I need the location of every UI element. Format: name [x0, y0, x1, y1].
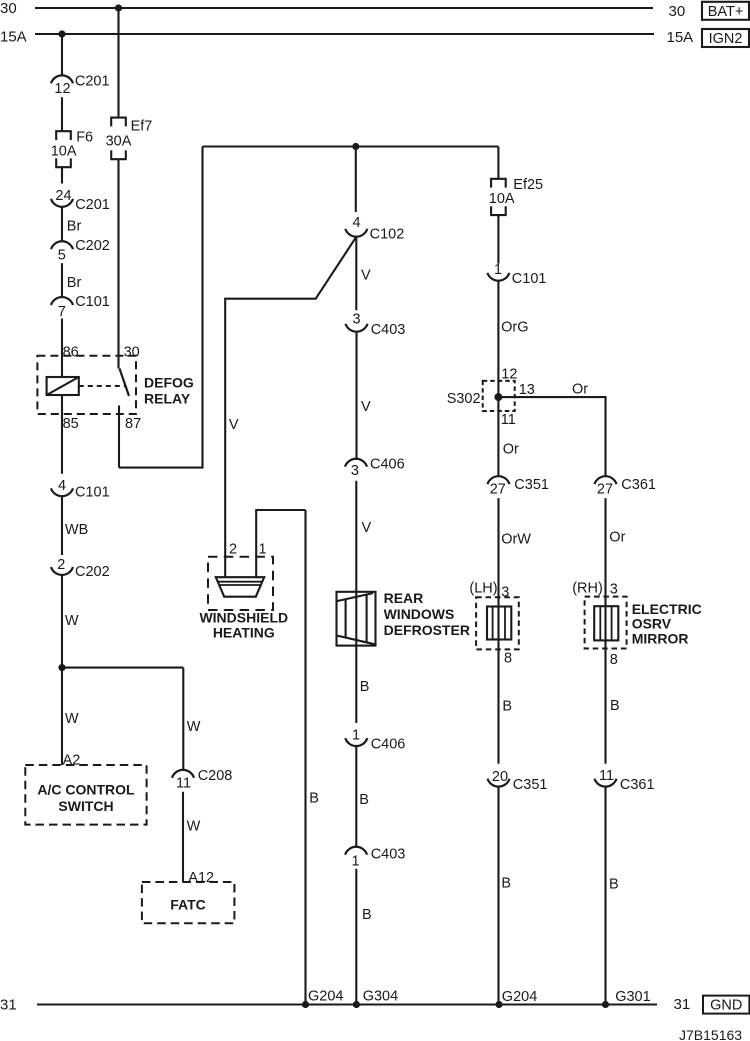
- component REAR WINDOWS DEFROSTER element: [337, 592, 376, 646]
- S302 pin label 13: [519, 382, 535, 398]
- svg-text:C361: C361: [620, 777, 655, 793]
- wire junction to C208 (horizontal): [62, 667, 183, 669]
- svg-text:G304: G304: [363, 988, 398, 1004]
- wire windshield pin1 ground line (B): [306, 510, 319, 1005]
- wire C102-4 slant to windshield pin2: [225, 237, 356, 577]
- svg-text:C201: C201: [75, 73, 110, 89]
- connector C101 pin 1: [487, 262, 546, 287]
- svg-text:C101: C101: [512, 271, 547, 287]
- wire C202-2 to A/C switch (W): [62, 575, 80, 769]
- wire C208-11 to FATC (W): [183, 792, 214, 886]
- svg-text:Or: Or: [503, 442, 519, 458]
- svg-text:W: W: [187, 719, 201, 735]
- component WINDSHIELD HEATING dashed box: [208, 557, 273, 610]
- svg-text:4: 4: [353, 215, 361, 231]
- node: junction of F6 feed on bus 15A: [58, 30, 65, 37]
- node: junction of Ef7 feed on bus 30: [115, 4, 122, 11]
- connector C202 pin 2: [51, 557, 110, 580]
- svg-text:12: 12: [54, 81, 70, 97]
- label 15A right: [667, 29, 694, 46]
- svg-text:V: V: [361, 399, 371, 415]
- svg-text:W: W: [65, 613, 79, 629]
- wire C101-7 to relay coil pin86: [61, 319, 63, 378]
- windshield heating element: [216, 577, 264, 597]
- svg-text:8: 8: [610, 652, 618, 668]
- svg-text:3: 3: [353, 312, 361, 328]
- svg-text:C202: C202: [75, 564, 110, 580]
- ground label G301: [615, 989, 650, 1005]
- svg-text:HEATING: HEATING: [213, 625, 275, 641]
- svg-text:2: 2: [57, 557, 65, 573]
- connector C101 pin 4: [51, 478, 110, 501]
- svg-text:B: B: [362, 907, 372, 923]
- svg-text:B: B: [502, 699, 512, 715]
- svg-text:1: 1: [352, 728, 360, 744]
- connector C361 pin 27: [595, 476, 656, 497]
- svg-text:10A: 10A: [51, 144, 77, 160]
- svg-text:85: 85: [63, 416, 79, 432]
- connector C406 pin 1: [345, 728, 405, 753]
- svg-text:GND: GND: [710, 998, 742, 1014]
- label REAR WINDOWS DEFROSTER: [384, 590, 470, 638]
- wire S302 to C361 column (Or): [498, 381, 605, 476]
- svg-text:C101: C101: [75, 485, 110, 501]
- fuse F6 10A: [51, 129, 93, 167]
- svg-text:87: 87: [125, 416, 141, 432]
- svg-text:(RH): (RH): [572, 581, 603, 597]
- connector C351 pin 20: [488, 769, 548, 793]
- svg-text:5: 5: [58, 248, 66, 264]
- windshield pin label 1: [258, 542, 266, 558]
- svg-text:B: B: [309, 791, 319, 807]
- svg-text:W: W: [187, 818, 201, 834]
- svg-text:11: 11: [176, 776, 191, 792]
- terminal box IGN2: [702, 29, 749, 47]
- svg-text:86: 86: [63, 344, 79, 360]
- svg-text:30A: 30A: [106, 134, 132, 150]
- node: ground G301: [602, 1001, 609, 1008]
- wire C101-4 to C202-2 (WB): [62, 496, 88, 555]
- svg-text:27: 27: [597, 481, 613, 497]
- fuse Ef7 30A: [106, 118, 153, 160]
- wire 15A bus to C201 pin12: [61, 34, 63, 76]
- label 30 left: [0, 0, 17, 17]
- svg-text:SWITCH: SWITCH: [58, 798, 113, 814]
- svg-text:G204: G204: [308, 988, 343, 1004]
- terminal box BAT+: [702, 2, 749, 20]
- svg-text:Or: Or: [572, 381, 588, 397]
- wire relay pin87 down: [118, 414, 120, 468]
- label 31 left: [0, 997, 17, 1014]
- svg-text:DEFROSTER: DEFROSTER: [384, 622, 470, 638]
- connector C102 pin 4: [345, 215, 404, 243]
- svg-text:B: B: [501, 875, 511, 891]
- windshield pin label 2: [229, 542, 237, 558]
- svg-text:FATC: FATC: [170, 896, 206, 912]
- svg-text:A2: A2: [63, 753, 81, 769]
- svg-text:C351: C351: [513, 777, 548, 793]
- wire relay pin85 to C101-4: [61, 395, 63, 474]
- svg-text:B: B: [359, 792, 369, 808]
- svg-text:WINDOWS: WINDOWS: [384, 606, 455, 622]
- wire C201-24 to C202-5 (Br): [62, 207, 81, 241]
- relay switch blade: [120, 369, 130, 397]
- node: ground G204 (B line): [302, 1001, 309, 1008]
- bus bar 15A (IGN2) wire: [35, 33, 654, 35]
- RH mirror defogger element: [594, 606, 618, 640]
- svg-text:(LH): (LH): [469, 581, 497, 597]
- svg-text:RELAY: RELAY: [144, 391, 191, 407]
- svg-text:ELECTRIC: ELECTRIC: [632, 601, 702, 617]
- connector C403 pin 3: [346, 312, 406, 338]
- wire C403-3 to C406-3 (V): [357, 332, 372, 459]
- svg-text:1: 1: [258, 542, 266, 558]
- wire fuse F6 to C201 pin24: [61, 168, 63, 184]
- svg-text:V: V: [229, 417, 239, 433]
- node: ground G204 right: [495, 1001, 502, 1008]
- svg-text:WB: WB: [65, 522, 88, 538]
- svg-text:Br: Br: [67, 275, 82, 291]
- svg-text:31: 31: [674, 996, 691, 1013]
- svg-text:G301: G301: [615, 989, 650, 1005]
- component LH mirror defogger dashed box: [476, 597, 519, 649]
- node: splice point S302: [494, 393, 502, 401]
- svg-text:B: B: [360, 679, 370, 695]
- component FATC dashed box: [142, 882, 235, 923]
- connector C406 pin 3: [345, 456, 405, 478]
- svg-text:10A: 10A: [489, 191, 515, 207]
- svg-text:V: V: [361, 267, 371, 283]
- svg-text:C351: C351: [514, 477, 549, 493]
- svg-text:A/C CONTROL: A/C CONTROL: [37, 782, 135, 798]
- wire pin87 feed: up to sub-rail: [119, 147, 203, 468]
- svg-text:C361: C361: [621, 477, 656, 493]
- connector C208 pin 11: [172, 768, 232, 791]
- svg-text:13: 13: [519, 382, 535, 398]
- svg-text:Or: Or: [609, 529, 625, 545]
- svg-text:Ef25: Ef25: [513, 177, 543, 193]
- svg-text:G204: G204: [502, 989, 537, 1005]
- relay coil: [47, 377, 79, 395]
- node: junction C102 branch on sub-rail: [352, 143, 359, 150]
- svg-text:1: 1: [494, 262, 502, 278]
- svg-text:WINDSHIELD: WINDSHIELD: [199, 610, 288, 626]
- relay pin label 85: [63, 416, 79, 432]
- svg-text:DEFOG: DEFOG: [144, 374, 194, 390]
- svg-text:15A: 15A: [0, 29, 27, 46]
- wire C102-4 down (V): [356, 237, 371, 310]
- svg-text:BAT+: BAT+: [708, 4, 744, 20]
- ground bus 31 wire: [37, 1003, 657, 1005]
- label S302: [447, 391, 481, 407]
- S302 pin label 11: [501, 412, 516, 428]
- ground label G204 left: [308, 988, 343, 1004]
- wire sub-rail to C102-4: [355, 147, 357, 213]
- wire C202-5 to C101-7 (Br): [62, 263, 81, 297]
- svg-text:Ef7: Ef7: [131, 119, 153, 135]
- wire C351-20 to ground (B): [499, 787, 512, 1005]
- svg-text:C406: C406: [370, 456, 405, 472]
- wire C101-1 to S302 (OrG): [498, 281, 528, 397]
- component RH mirror defogger dashed box: [585, 597, 627, 649]
- svg-text:REAR: REAR: [384, 590, 424, 606]
- wire C406-1 to C403-1 (B): [356, 746, 369, 847]
- svg-text:A12: A12: [188, 870, 214, 886]
- wire C201-12 to fuse F6: [61, 97, 63, 131]
- connector C361 pin 11: [595, 768, 655, 793]
- svg-text:1: 1: [351, 854, 359, 870]
- label 15A left: [0, 29, 27, 46]
- svg-text:12: 12: [501, 367, 517, 383]
- relay pin label 86: [63, 344, 79, 360]
- svg-text:C101: C101: [75, 294, 110, 310]
- svg-text:3: 3: [351, 463, 359, 479]
- svg-text:8: 8: [504, 651, 512, 667]
- svg-text:30: 30: [669, 3, 686, 20]
- svg-text:S302: S302: [447, 391, 481, 407]
- svg-text:OrW: OrW: [501, 531, 531, 547]
- svg-text:Br: Br: [67, 219, 82, 235]
- svg-text:B: B: [609, 876, 619, 892]
- svg-text:11: 11: [599, 768, 614, 784]
- relay pin label 30: [124, 344, 140, 360]
- ground label G304: [363, 988, 398, 1004]
- ground label G204 right: [502, 989, 537, 1005]
- svg-text:4: 4: [58, 478, 66, 494]
- splice S302 dashed box: [483, 381, 515, 411]
- connector C202 pin 5: [51, 238, 110, 263]
- svg-text:V: V: [362, 520, 372, 536]
- relay pin label 87: [125, 416, 141, 432]
- svg-text:30: 30: [124, 344, 140, 360]
- svg-text:C208: C208: [198, 768, 233, 784]
- svg-text:C406: C406: [371, 736, 406, 752]
- node: ground G304: [353, 1001, 360, 1008]
- svg-text:J7B15163: J7B15163: [679, 1027, 742, 1041]
- svg-text:IGN2: IGN2: [709, 31, 743, 47]
- wire bus30 to fuse Ef7: [117, 8, 119, 118]
- svg-text:W: W: [65, 711, 79, 727]
- wire C361-11 to ground (B): [606, 787, 619, 1005]
- connector C403 pin 1: [345, 846, 405, 869]
- svg-text:F6: F6: [76, 129, 93, 145]
- relay switch contact 87 stub: [118, 406, 120, 415]
- svg-text:C403: C403: [371, 322, 406, 338]
- relay K: DEFOG RELAY dashed box: [37, 356, 136, 414]
- svg-text:C202: C202: [75, 238, 110, 254]
- component A/C CONTROL SWITCH dashed box: [25, 765, 146, 825]
- wire Ef25 to C101-1: [497, 215, 499, 264]
- terminal box GND: [703, 996, 749, 1014]
- connector C201 pin 24: [51, 188, 110, 213]
- relay actuator dashed link: [79, 385, 126, 387]
- connector C351 pin 27: [488, 476, 549, 497]
- svg-text:2: 2: [229, 542, 237, 558]
- bus bar 30 (BAT+) wire: [35, 7, 653, 9]
- svg-text:C102: C102: [370, 227, 405, 243]
- label B below defroster: [360, 679, 370, 695]
- connector C201 pin 12: [51, 73, 110, 97]
- fuse Ef25 10A: [489, 177, 543, 215]
- label J7B15163: [679, 1027, 742, 1041]
- wire C406-3 through defroster (V): [356, 481, 371, 723]
- label WINDSHIELD HEATING: [199, 610, 288, 641]
- svg-text:30: 30: [0, 0, 17, 17]
- svg-text:C403: C403: [371, 846, 406, 862]
- S302 pin label 12: [501, 367, 517, 383]
- svg-text:15A: 15A: [667, 29, 694, 46]
- wire sub-rail down to fuse Ef25: [497, 147, 499, 179]
- svg-text:24: 24: [55, 188, 71, 204]
- svg-text:3: 3: [610, 582, 618, 598]
- svg-text:20: 20: [492, 769, 508, 785]
- label ELECTRIC OSRV MIRROR: [632, 601, 702, 647]
- node: junction to C208 branch: [58, 664, 65, 671]
- wire junction to C208 (vertical, W): [183, 668, 201, 770]
- label DEFOG RELAY: [144, 374, 194, 406]
- wire fuse Ef7 to relay pin30: [117, 159, 119, 368]
- wire S302 to C351-27 (Or): [498, 397, 519, 476]
- LH mirror defogger element: [487, 607, 511, 640]
- wire sub-rail to Ef25: [203, 145, 499, 147]
- svg-text:B: B: [610, 698, 620, 714]
- label 30 right: [669, 3, 686, 20]
- svg-text:31: 31: [0, 997, 17, 1014]
- connector C101 pin 7: [51, 294, 110, 320]
- label 31 right: [674, 996, 691, 1013]
- wire windshield pin1 up-over to B-line: [256, 510, 305, 577]
- svg-text:11: 11: [501, 412, 516, 428]
- svg-text:7: 7: [58, 304, 66, 320]
- svg-text:C201: C201: [75, 197, 110, 213]
- svg-text:OSRV: OSRV: [632, 616, 672, 632]
- svg-text:MIRROR: MIRROR: [632, 631, 689, 647]
- wire C361-27 to RH mirror (Or): [572, 498, 625, 764]
- wire C403-1 to ground (B): [356, 869, 371, 1005]
- svg-text:OrG: OrG: [501, 319, 528, 335]
- svg-text:27: 27: [490, 481, 506, 497]
- wire C351-27 to LH mirror (OrW): [469, 498, 531, 764]
